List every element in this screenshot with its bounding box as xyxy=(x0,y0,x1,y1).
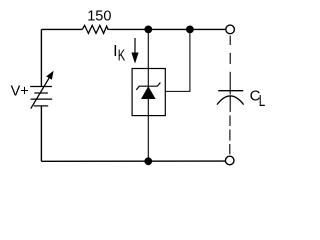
svg-text:L: L xyxy=(259,92,266,109)
svg-text:K: K xyxy=(118,47,125,64)
wire top horizontal from resistor to top-right terminal xyxy=(109,28,226,30)
plate long top xyxy=(30,86,52,88)
zener diode triangle (anode, filled) xyxy=(141,86,156,99)
zener cathode bar with bent ends xyxy=(136,83,160,90)
plate long xyxy=(31,98,53,100)
wire left vertical upper (corner down to battery top plate) xyxy=(40,29,42,86)
battery variable source V+ xyxy=(30,77,52,108)
wire top-left horizontal from left corner to resistor xyxy=(41,28,82,30)
wire center vertical node line (top dot through zener box to bottom dot) xyxy=(147,29,149,161)
dashed lead from top terminal down to capacitor xyxy=(229,36,231,95)
junction dot bottom node xyxy=(144,157,152,165)
svg-text:I: I xyxy=(113,43,117,60)
terminal circle top right xyxy=(226,25,235,34)
wire from right top dot down and left into box right side xyxy=(165,29,190,91)
svg-text:150: 150 xyxy=(87,8,111,24)
plate short xyxy=(34,92,48,94)
terminal circle bottom right xyxy=(225,156,234,165)
junction dot node A (resistor/zener) xyxy=(144,26,152,34)
zener diode box U1 xyxy=(132,69,165,116)
capacitor bottom lead stub xyxy=(229,96,231,112)
junction dot node B (zener box right branch) xyxy=(186,26,194,34)
capacitor CL flat top plate xyxy=(218,90,243,92)
wire bottom horizontal xyxy=(41,160,225,162)
variable arrow shaft through battery xyxy=(31,77,50,108)
IK current arrow xyxy=(134,38,136,55)
wire left vertical lower (battery bottom to bottom corner) xyxy=(40,106,42,161)
resistor R1 150 zigzag xyxy=(82,25,109,33)
dashed lead from capacitor down to bottom terminal xyxy=(229,115,231,154)
plate short bottom xyxy=(34,105,48,107)
capacitor CL curved bottom plate xyxy=(217,96,244,105)
svg-text:V+: V+ xyxy=(11,83,29,99)
variable arrow head xyxy=(46,71,53,80)
